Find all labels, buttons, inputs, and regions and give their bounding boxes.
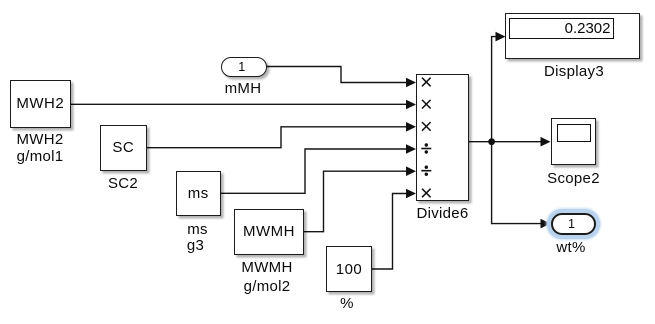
multiply symbol row3: [422, 122, 431, 131]
junction dot on Divide6 output net: [488, 138, 495, 145]
arrowhead into wt% outport: [541, 219, 551, 229]
arrowhead into Display3: [496, 32, 506, 42]
divide symbol row5: [421, 170, 431, 172]
wire mMH to Divide6 input1: [267, 67, 408, 83]
constant block ms: [176, 171, 222, 216]
inport mMH oval: [221, 57, 267, 77]
wire MWMH to Divide6 input5: [304, 171, 407, 232]
label g/mol2: [207, 279, 327, 295]
label %: [287, 296, 407, 312]
arrowhead into Divide6 input6: [406, 189, 416, 199]
arrowhead into Divide6 input1: [406, 78, 416, 88]
divide block Divide6: [416, 74, 469, 201]
selection halo around wt% outport: [547, 209, 600, 239]
multiply symbol row1: [422, 78, 431, 87]
scope screen: [557, 124, 591, 142]
label MWMH: [207, 260, 327, 276]
arrowhead into Divide6 input3: [406, 122, 416, 132]
arrowhead into Divide6 input5: [406, 166, 416, 176]
label g3: [136, 238, 256, 254]
arrowhead into Divide6 input4: [406, 144, 416, 154]
display block Display3: [505, 13, 640, 59]
multiply symbol row2: [422, 100, 431, 109]
wire SC to Divide6 input3: [147, 127, 408, 148]
divide symbol row4: [421, 148, 431, 150]
arrowhead into Scope2: [541, 137, 551, 147]
constant block MWH2: [10, 80, 71, 128]
wire MWH2 to Divide6 input2: [71, 103, 408, 105]
label mMH: [183, 81, 303, 97]
wire ms to Divide6 input4: [221, 149, 407, 193]
label g/mol1: [0, 149, 100, 165]
wire branch down to wt% outport: [492, 142, 542, 224]
wire Divide6 output to Scope2: [469, 141, 542, 143]
label ms: [138, 222, 258, 238]
arrowhead into Divide6 input2: [406, 100, 416, 110]
label Display3: [514, 64, 634, 80]
label MWH2: [0, 132, 100, 148]
constant block MWMH: [234, 209, 304, 256]
display value field 0.2302: [509, 18, 614, 39]
label Scope2: [514, 171, 634, 187]
label wt%: [511, 240, 631, 256]
constant block SC: [100, 125, 147, 171]
label SC2: [63, 176, 183, 192]
outport wt% oval: [551, 213, 597, 235]
wire branch up to Display3: [492, 37, 496, 142]
label Divide6: [383, 206, 503, 222]
constant block 100: [326, 246, 372, 292]
scope block Scope2: [551, 118, 597, 166]
multiply symbol row6: [422, 189, 431, 198]
wire 100 to Divide6 input6: [372, 194, 407, 270]
